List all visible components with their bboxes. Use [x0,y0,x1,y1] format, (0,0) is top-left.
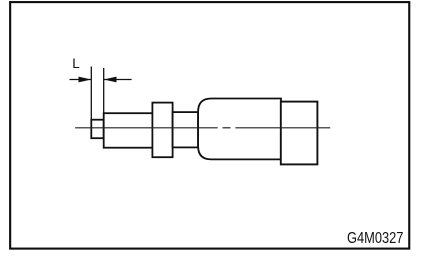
dimension line right tail [104,79,132,81]
sensor tip (small left stub) [91,120,103,139]
threaded shaft section [104,113,153,148]
centerline (dash-dot axis) [75,127,330,129]
extension line 2 (shaft left edge) [103,68,105,113]
main sensor body (rounded left corners) [198,99,281,160]
middle cylinder section [173,112,199,147]
right arrowhead [104,77,117,83]
left arrowhead [79,77,92,83]
extension line 1 (tip left edge) [90,67,92,121]
dimension line left tail [70,79,92,81]
svg-text:L: L [72,56,80,71]
hex nut flange [152,103,172,158]
connector housing (right block) [281,102,318,165]
svg-text:G4M0327: G4M0327 [347,230,403,247]
